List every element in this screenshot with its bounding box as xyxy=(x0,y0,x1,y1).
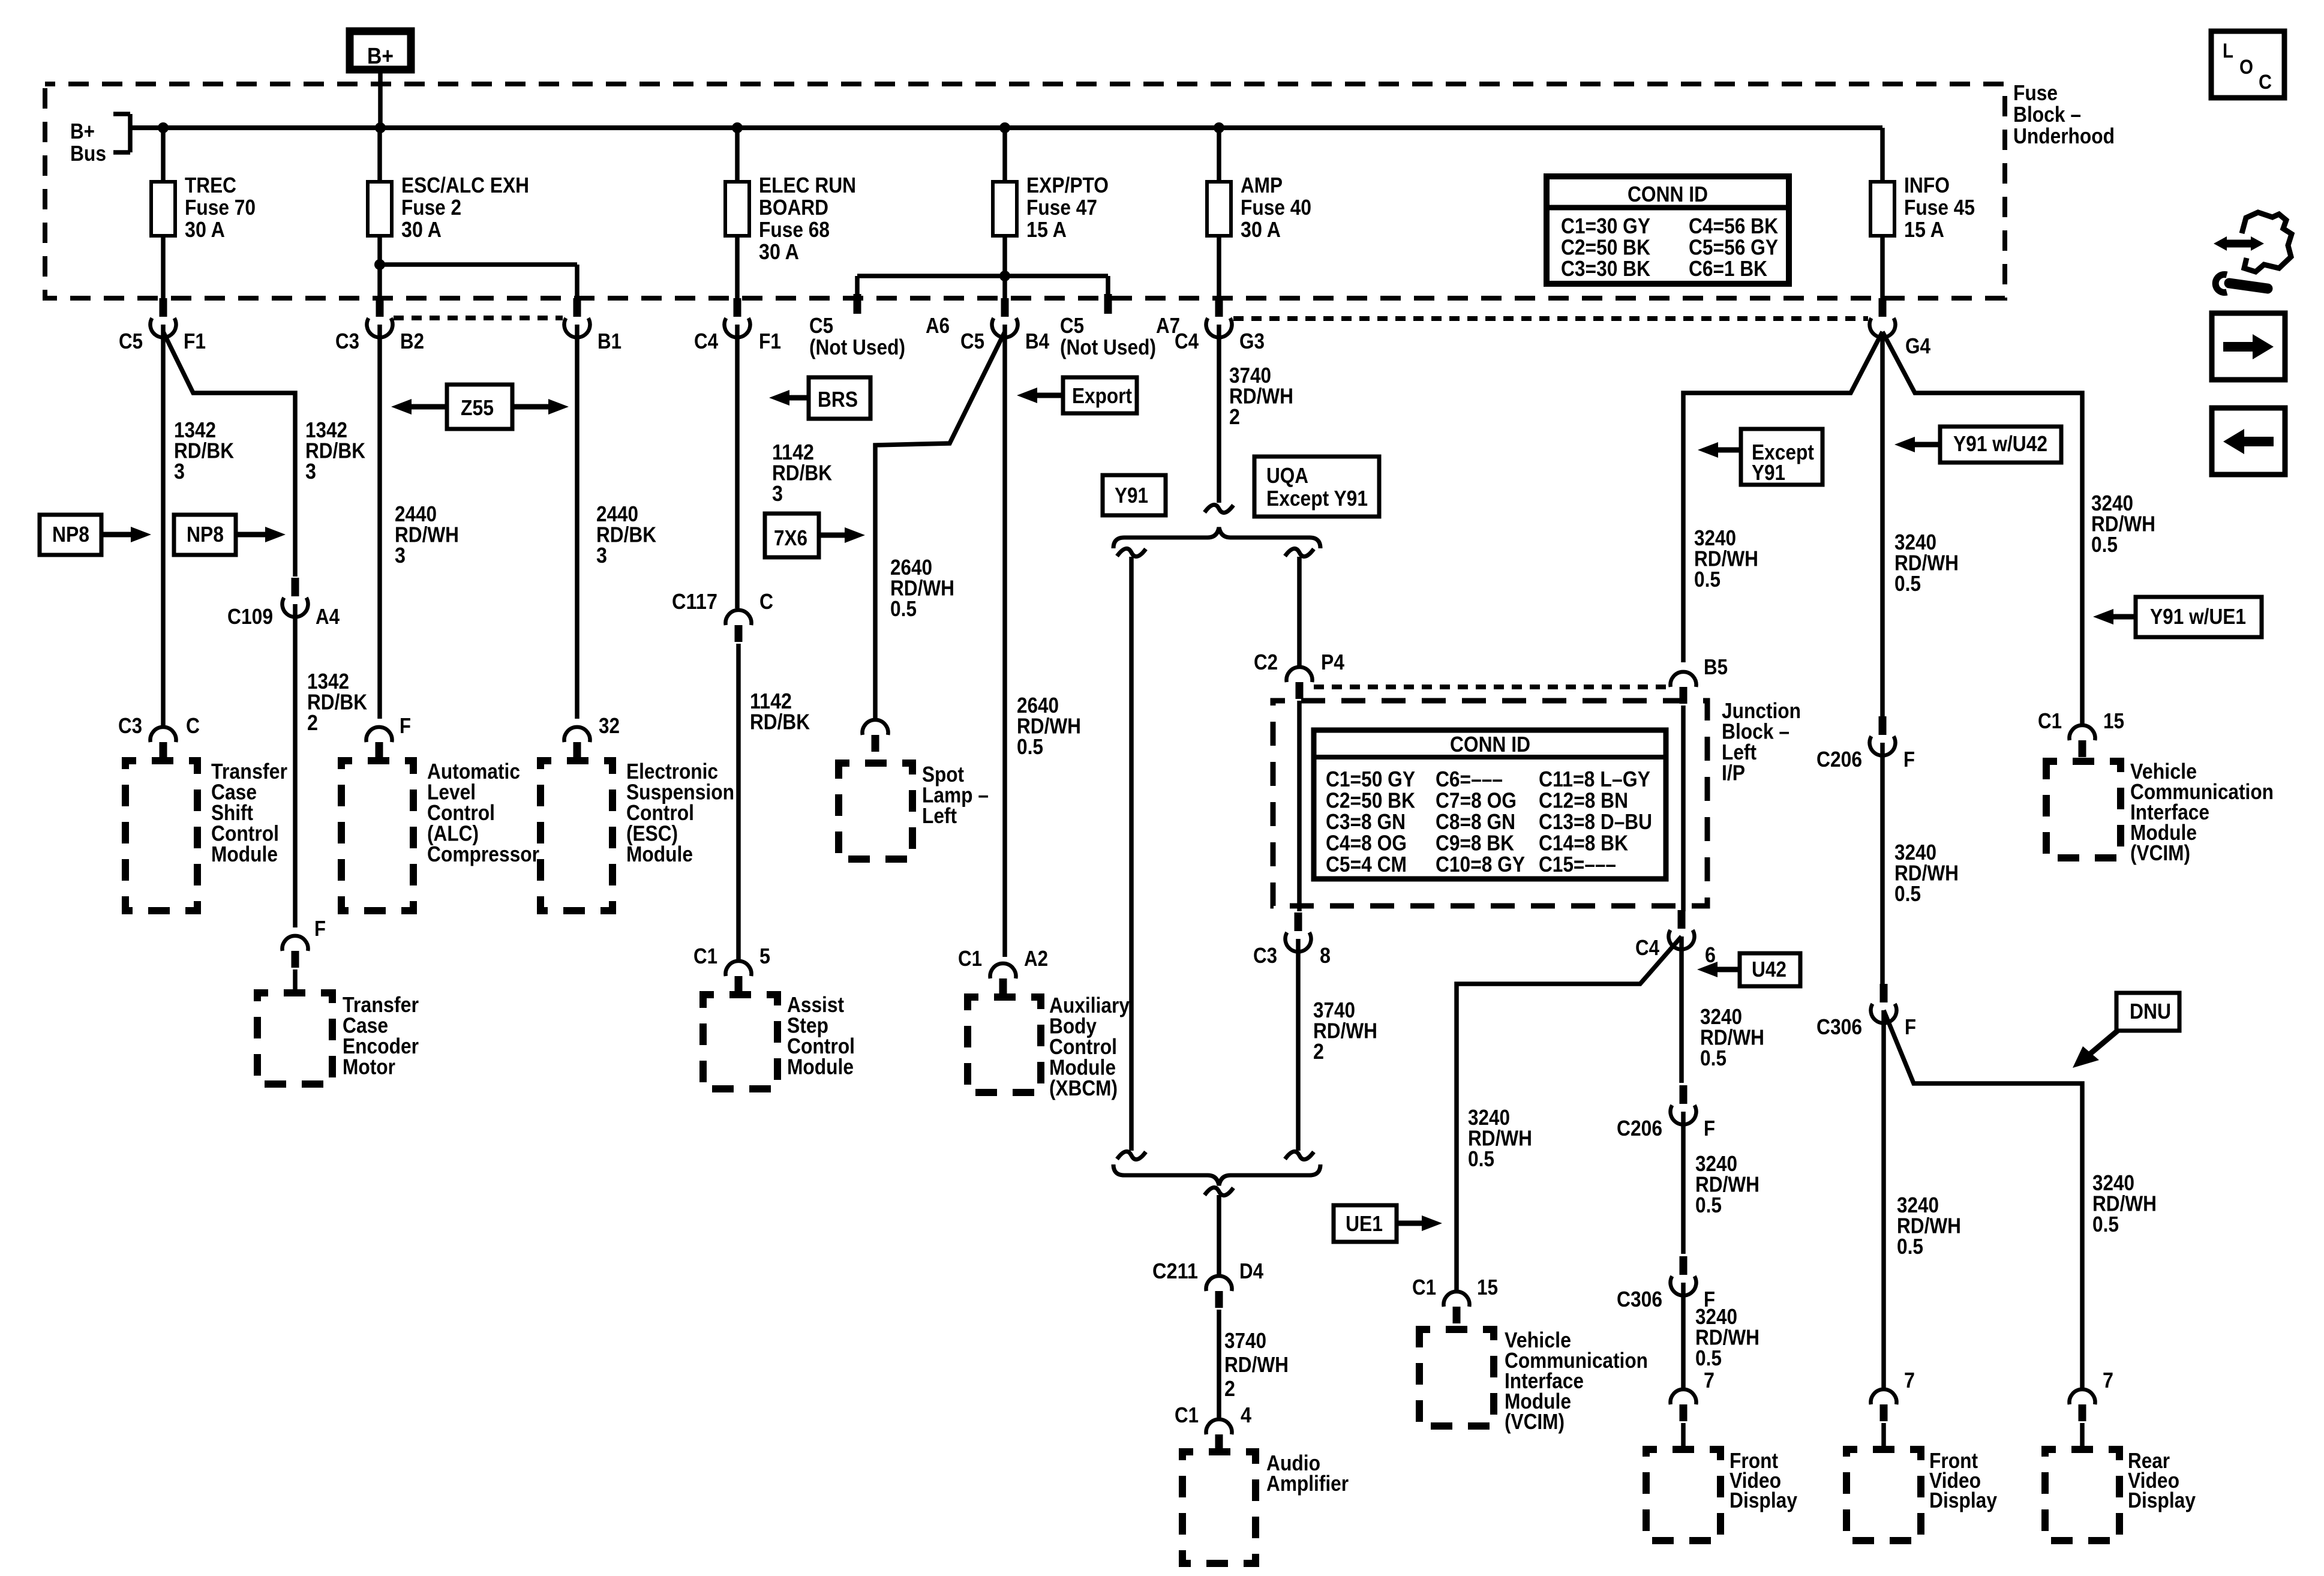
svg-text:G3: G3 xyxy=(1239,329,1265,353)
svg-text:2: 2 xyxy=(1224,1376,1235,1401)
svg-text:C6=1 BK: C6=1 BK xyxy=(1689,256,1767,281)
svg-text:Fuse 70: Fuse 70 xyxy=(185,195,256,220)
svg-text:NP8: NP8 xyxy=(187,522,224,547)
svg-text:3: 3 xyxy=(395,543,406,568)
svg-text:2: 2 xyxy=(1229,404,1240,429)
svg-text:A2: A2 xyxy=(1024,946,1048,971)
svg-text:D4: D4 xyxy=(1239,1259,1263,1283)
svg-text:2: 2 xyxy=(1313,1039,1324,1064)
svg-text:L: L xyxy=(2223,40,2233,62)
svg-text:U42: U42 xyxy=(1752,957,1786,981)
svg-text:G4: G4 xyxy=(1905,334,1930,358)
svg-text:Fuse: Fuse xyxy=(2013,80,2058,105)
svg-text:(XBCM): (XBCM) xyxy=(1049,1076,1118,1100)
svg-text:15: 15 xyxy=(2103,709,2124,733)
svg-text:Y91: Y91 xyxy=(1115,483,1148,508)
svg-text:C15=–––: C15=––– xyxy=(1539,852,1616,876)
svg-text:(VCIM): (VCIM) xyxy=(2130,840,2190,865)
svg-text:B4: B4 xyxy=(1025,329,1049,353)
svg-text:5: 5 xyxy=(759,944,770,968)
svg-text:7: 7 xyxy=(1904,1368,1915,1392)
svg-text:UE1: UE1 xyxy=(1346,1211,1383,1236)
svg-text:Underhood: Underhood xyxy=(2013,124,2115,148)
svg-text:RD/BK: RD/BK xyxy=(750,710,810,734)
svg-text:15: 15 xyxy=(1477,1275,1498,1299)
svg-text:3: 3 xyxy=(596,543,607,568)
svg-text:TREC: TREC xyxy=(185,173,236,197)
svg-text:(Not Used): (Not Used) xyxy=(1060,335,1156,359)
svg-text:P4: P4 xyxy=(1321,650,1344,674)
svg-text:0.5: 0.5 xyxy=(1700,1046,1727,1070)
svg-text:3740: 3740 xyxy=(1224,1328,1266,1353)
svg-text:C3: C3 xyxy=(118,713,142,738)
svg-text:Bus: Bus xyxy=(70,141,106,166)
svg-text:C3: C3 xyxy=(1253,943,1277,968)
svg-text:Motor: Motor xyxy=(343,1055,395,1079)
svg-text:0.5: 0.5 xyxy=(1468,1146,1494,1171)
svg-text:F: F xyxy=(400,713,411,738)
svg-text:7: 7 xyxy=(2103,1368,2113,1392)
svg-text:(Not Used): (Not Used) xyxy=(809,335,905,359)
svg-text:0.5: 0.5 xyxy=(890,596,917,621)
svg-text:Z55: Z55 xyxy=(461,395,494,420)
svg-text:Display: Display xyxy=(1730,1488,1797,1512)
svg-text:C206: C206 xyxy=(1816,747,1862,772)
svg-text:0.5: 0.5 xyxy=(1694,567,1721,592)
svg-text:B+: B+ xyxy=(70,119,95,143)
svg-text:C1: C1 xyxy=(1175,1403,1199,1427)
svg-text:C117: C117 xyxy=(672,589,717,614)
svg-text:Compressor: Compressor xyxy=(427,842,539,866)
svg-text:0.5: 0.5 xyxy=(2092,1212,2119,1236)
svg-text:B1: B1 xyxy=(597,329,621,353)
svg-text:F: F xyxy=(1905,1014,1916,1039)
svg-text:C5: C5 xyxy=(119,329,143,353)
svg-text:8: 8 xyxy=(1320,943,1331,968)
svg-text:O: O xyxy=(2239,56,2253,79)
svg-text:7X6: 7X6 xyxy=(774,526,807,550)
svg-text:C10=8 GY: C10=8 GY xyxy=(1436,852,1525,876)
svg-text:C: C xyxy=(759,589,773,614)
svg-text:4: 4 xyxy=(1241,1403,1251,1427)
svg-text:3: 3 xyxy=(174,459,185,484)
svg-text:A4: A4 xyxy=(316,604,340,629)
svg-text:F1: F1 xyxy=(184,329,206,353)
svg-text:CONN ID: CONN ID xyxy=(1628,182,1708,206)
svg-text:15 A: 15 A xyxy=(1904,217,1944,242)
svg-text:0.5: 0.5 xyxy=(1894,571,1921,596)
svg-text:15 A: 15 A xyxy=(1026,217,1067,242)
svg-text:0.5: 0.5 xyxy=(1894,881,1921,906)
svg-text:2: 2 xyxy=(307,710,318,735)
svg-text:0.5: 0.5 xyxy=(2091,532,2118,557)
svg-text:C306: C306 xyxy=(1816,1014,1862,1039)
svg-text:C5: C5 xyxy=(809,313,833,338)
svg-text:Fuse 45: Fuse 45 xyxy=(1904,195,1975,220)
svg-text:C2: C2 xyxy=(1254,650,1278,674)
svg-text:Y91 w/U42: Y91 w/U42 xyxy=(1953,431,2047,456)
svg-text:C1: C1 xyxy=(1412,1275,1436,1299)
svg-text:Fuse 47: Fuse 47 xyxy=(1026,195,1097,220)
svg-text:Except Y91: Except Y91 xyxy=(1266,486,1368,511)
svg-text:C1: C1 xyxy=(958,946,982,971)
svg-text:B5: B5 xyxy=(1704,655,1728,679)
svg-text:C206: C206 xyxy=(1617,1116,1662,1140)
svg-text:Display: Display xyxy=(1929,1488,1997,1512)
svg-text:BRS: BRS xyxy=(818,387,858,412)
svg-text:F1: F1 xyxy=(759,329,781,353)
svg-text:F: F xyxy=(1903,747,1915,772)
svg-text:Display: Display xyxy=(2128,1488,2196,1512)
svg-text:C5=4 CM: C5=4 CM xyxy=(1326,852,1407,876)
svg-text:Export: Export xyxy=(1072,383,1132,408)
svg-text:30 A: 30 A xyxy=(185,217,225,242)
svg-text:BOARD: BOARD xyxy=(759,195,828,220)
svg-text:32: 32 xyxy=(599,713,620,738)
svg-text:ELEC RUN: ELEC RUN xyxy=(759,173,856,197)
svg-text:0.5: 0.5 xyxy=(1017,734,1043,759)
svg-text:C3=30 BK: C3=30 BK xyxy=(1561,256,1650,281)
svg-text:7: 7 xyxy=(1704,1368,1715,1392)
svg-text:30 A: 30 A xyxy=(401,217,442,242)
svg-text:Amplifier: Amplifier xyxy=(1266,1471,1349,1496)
svg-text:A6: A6 xyxy=(926,313,950,338)
svg-text:C4: C4 xyxy=(1635,935,1659,960)
svg-text:INFO: INFO xyxy=(1904,173,1950,197)
svg-text:C211: C211 xyxy=(1152,1259,1198,1283)
svg-text:3: 3 xyxy=(772,481,783,506)
svg-text:30 A: 30 A xyxy=(1241,217,1281,242)
svg-text:AMP: AMP xyxy=(1241,173,1283,197)
svg-text:B2: B2 xyxy=(400,329,424,353)
svg-text:0.5: 0.5 xyxy=(1695,1193,1722,1217)
svg-text:Fuse 2: Fuse 2 xyxy=(401,195,461,220)
svg-text:Block –: Block – xyxy=(2013,102,2081,127)
svg-text:C: C xyxy=(2259,71,2272,94)
svg-text:C1: C1 xyxy=(693,944,717,968)
svg-text:0.5: 0.5 xyxy=(1695,1346,1722,1370)
svg-text:Fuse 68: Fuse 68 xyxy=(759,217,830,242)
svg-text:3: 3 xyxy=(305,459,316,484)
svg-text:Module: Module xyxy=(787,1055,854,1079)
svg-text:C306: C306 xyxy=(1617,1287,1662,1311)
svg-text:Y91 w/UE1: Y91 w/UE1 xyxy=(2150,604,2246,629)
svg-text:C5: C5 xyxy=(1060,313,1084,338)
svg-text:ESC/ALC EXH: ESC/ALC EXH xyxy=(401,173,529,197)
svg-text:0.5: 0.5 xyxy=(1897,1234,1923,1259)
svg-text:B+: B+ xyxy=(367,44,394,69)
svg-text:C4: C4 xyxy=(694,329,718,353)
svg-text:C3: C3 xyxy=(335,329,359,353)
svg-text:C109: C109 xyxy=(227,604,273,629)
svg-text:I/P: I/P xyxy=(1722,761,1745,785)
svg-text:F: F xyxy=(1704,1116,1715,1140)
svg-text:C1: C1 xyxy=(2038,709,2062,733)
svg-text:Y91: Y91 xyxy=(1752,460,1785,485)
svg-text:UQA: UQA xyxy=(1266,463,1308,488)
svg-text:RD/WH: RD/WH xyxy=(1224,1352,1289,1377)
svg-text:Module: Module xyxy=(626,842,693,866)
svg-text:A7: A7 xyxy=(1156,313,1180,338)
svg-text:F: F xyxy=(314,916,326,941)
svg-text:Module: Module xyxy=(211,842,278,866)
svg-text:Fuse 40: Fuse 40 xyxy=(1241,195,1311,220)
svg-text:NP8: NP8 xyxy=(52,522,89,547)
svg-text:C5: C5 xyxy=(960,329,984,353)
svg-text:(VCIM): (VCIM) xyxy=(1505,1409,1565,1434)
svg-text:CONN ID: CONN ID xyxy=(1450,732,1530,757)
svg-text:EXP/PTO: EXP/PTO xyxy=(1026,173,1109,197)
svg-text:Left: Left xyxy=(922,803,957,828)
svg-text:C: C xyxy=(186,713,200,738)
svg-text:30 A: 30 A xyxy=(759,239,799,264)
svg-text:DNU: DNU xyxy=(2130,999,2171,1023)
